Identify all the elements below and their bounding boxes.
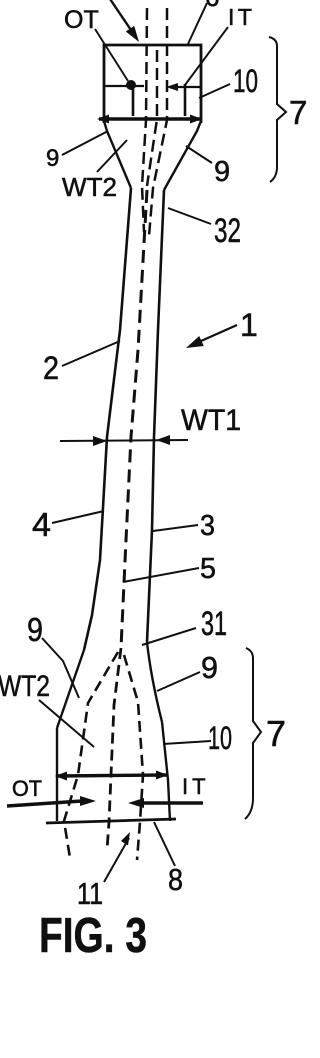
bottom head left wall <box>56 728 58 821</box>
svg-text:2: 2 <box>43 350 59 386</box>
bottom head bottom line <box>46 819 176 823</box>
leader 4 <box>52 511 104 523</box>
arrow 1 <box>192 325 237 345</box>
svg-text:31: 31 <box>201 605 227 643</box>
WT1 dimension line <box>60 440 188 441</box>
svg-text:9: 9 <box>201 650 218 685</box>
IT arrow bottom <box>142 801 203 805</box>
leader WT2 top <box>97 140 127 172</box>
left recess vertical (dashed) <box>132 89 135 116</box>
dashed bore line right, top head <box>149 8 167 236</box>
OT arrow bottom <box>7 801 82 806</box>
brace 7 bottom <box>245 648 261 819</box>
svg-text:10: 10 <box>208 720 232 756</box>
dashed bore line left, top head <box>142 8 147 232</box>
svg-text:FIG. 3: FIG. 3 <box>39 909 147 963</box>
svg-text:11: 11 <box>77 876 103 911</box>
svg-text:9: 9 <box>214 156 230 188</box>
svg-text:OT: OT <box>64 6 99 34</box>
svg-text:WT2: WT2 <box>0 670 50 703</box>
svg-text:32: 32 <box>214 212 241 250</box>
dashed centre line, bottom head <box>107 648 121 850</box>
svg-text:4: 4 <box>32 506 51 543</box>
svg-text:9: 9 <box>46 145 59 172</box>
dashed bore line left, bottom head <box>64 652 118 858</box>
leader 9 bottom-left <box>42 638 79 698</box>
bottom head diameter line with outward arrows <box>56 775 167 776</box>
leader 10 bottom <box>163 741 211 744</box>
svg-text:1: 1 <box>240 307 258 343</box>
bottom head right wall <box>162 722 170 821</box>
svg-text:7: 7 <box>266 713 286 754</box>
svg-text:7: 7 <box>289 94 307 131</box>
bottom head funnel left edge <box>57 650 84 728</box>
leader OT top <box>95 29 128 81</box>
leader line 6 <box>188 3 207 44</box>
right recess vertical <box>184 84 187 116</box>
svg-text:9: 9 <box>27 611 43 648</box>
svg-text:OT: OT <box>12 776 42 801</box>
leader 9 top-right <box>186 146 212 163</box>
leader 8 <box>154 822 175 866</box>
leader 10 top <box>199 84 230 98</box>
svg-text:8: 8 <box>168 862 183 897</box>
brace 7 top <box>269 37 286 182</box>
dashed bore line right, bottom head <box>124 655 143 860</box>
leader arrow from cut-off label at top <box>108 0 133 33</box>
head diameter thick line with outward arrows <box>99 117 200 120</box>
svg-text:5: 5 <box>200 553 216 585</box>
dashed centre line, top head <box>147 50 157 186</box>
leader 11 with arrow <box>104 838 129 882</box>
stem right wall <box>147 190 164 642</box>
leader 9 bottom-right <box>157 672 200 691</box>
leader IT top <box>185 27 228 85</box>
dot at end of OT leader <box>126 80 136 90</box>
svg-text:10: 10 <box>233 63 258 99</box>
leader WT2 bottom <box>39 700 94 747</box>
top head outline <box>104 45 201 123</box>
leader 3 <box>153 525 198 531</box>
svg-text:3: 3 <box>200 510 215 542</box>
right shoulder line with arrow <box>170 86 202 88</box>
bottom head funnel right edge <box>147 642 162 722</box>
leader 2 <box>62 341 120 366</box>
leader 9 top-left <box>62 131 108 155</box>
svg-text:IT: IT <box>182 774 210 799</box>
leader 32 <box>168 208 211 224</box>
head tip left + funnel left edge <box>104 121 131 188</box>
stem centre dashed line <box>121 190 147 648</box>
stem left wall <box>84 188 131 650</box>
svg-text:WT1: WT1 <box>181 404 241 437</box>
head tip right + funnel right edge <box>164 121 201 190</box>
left shoulder line inside head <box>104 85 144 87</box>
svg-text:6: 6 <box>205 0 219 12</box>
svg-text:WT2: WT2 <box>62 172 117 202</box>
leader 5 <box>123 568 199 582</box>
leader 31 <box>142 628 196 645</box>
svg-text:IT: IT <box>228 4 255 30</box>
